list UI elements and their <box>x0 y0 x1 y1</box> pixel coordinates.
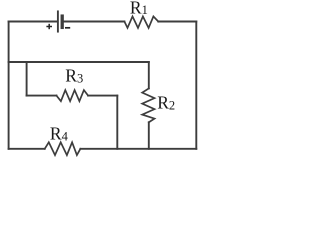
wire right outer <box>195 22 197 149</box>
battery negative mark - <box>65 27 70 29</box>
wire R3 right lead <box>88 95 117 97</box>
svg-text:R3: R3 <box>65 66 83 86</box>
wire R2 top lead <box>148 62 150 88</box>
battery B1 positive plate (long) <box>57 11 59 31</box>
svg-text:R4: R4 <box>50 124 69 144</box>
resistor R4 <box>45 142 81 155</box>
resistor R2 <box>142 88 154 122</box>
wire left outer <box>8 22 10 149</box>
resistor R3 <box>57 90 89 101</box>
wire R3 drop vertical <box>116 96 118 149</box>
wire middle horizontal (node to R2 top) <box>9 61 149 63</box>
wire R3 feed vertical <box>26 62 28 96</box>
svg-text:R2: R2 <box>157 93 175 113</box>
battery positive mark + <box>46 24 52 29</box>
wire R2 bottom lead <box>148 122 150 149</box>
battery B1 negative plate (short thick) <box>61 16 64 27</box>
wire top middle segment (battery to R1) <box>64 21 125 23</box>
wire bottom left segment <box>9 148 45 150</box>
svg-text:R1: R1 <box>130 0 148 17</box>
wire R3 left lead <box>27 95 57 97</box>
wire bottom right segment <box>80 148 196 150</box>
wire top left segment (battery feed) <box>9 21 58 23</box>
wire top right segment <box>158 21 196 23</box>
resistor R1 <box>124 16 158 28</box>
